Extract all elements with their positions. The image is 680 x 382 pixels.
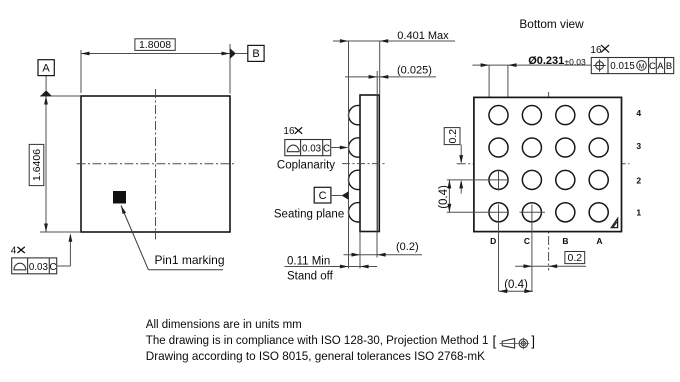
svg-text:C: C bbox=[319, 190, 327, 202]
svg-text:3: 3 bbox=[636, 141, 641, 151]
svg-text:C: C bbox=[649, 61, 656, 72]
svg-text:B: B bbox=[562, 236, 568, 246]
svg-text:B: B bbox=[252, 48, 259, 60]
svg-text:C: C bbox=[49, 262, 56, 273]
svg-text:4: 4 bbox=[636, 108, 641, 118]
svg-text:0.03: 0.03 bbox=[302, 144, 322, 155]
svg-text:1.8008: 1.8008 bbox=[139, 39, 171, 51]
svg-text:]: ] bbox=[531, 333, 535, 348]
svg-text:D: D bbox=[490, 236, 496, 246]
svg-text:16: 16 bbox=[590, 45, 602, 56]
svg-text:Ø0.231: Ø0.231 bbox=[528, 55, 564, 67]
svg-text:A: A bbox=[657, 61, 664, 72]
svg-text:0.401 Max: 0.401 Max bbox=[397, 30, 449, 42]
svg-text:Coplanarity: Coplanarity bbox=[277, 160, 335, 172]
svg-text:B: B bbox=[666, 61, 672, 72]
svg-text:C: C bbox=[524, 236, 530, 246]
svg-text:1: 1 bbox=[636, 208, 641, 218]
svg-text:1.6406: 1.6406 bbox=[31, 149, 43, 181]
svg-text:A: A bbox=[596, 236, 602, 246]
svg-text:4: 4 bbox=[11, 245, 17, 256]
svg-text:Bottom view: Bottom view bbox=[519, 17, 584, 31]
svg-text:0.2: 0.2 bbox=[447, 129, 459, 144]
svg-text:A: A bbox=[42, 63, 50, 75]
svg-text:(0.2): (0.2) bbox=[396, 241, 419, 253]
svg-text:Seating plane: Seating plane bbox=[274, 209, 344, 221]
svg-text:16: 16 bbox=[283, 126, 295, 137]
svg-text:(0.4): (0.4) bbox=[438, 185, 450, 209]
svg-text:Stand off: Stand off bbox=[287, 270, 334, 282]
svg-text:Drawing according to ISO 8015,: Drawing according to ISO 8015, general t… bbox=[146, 350, 485, 363]
svg-text:All dimensions are in units mm: All dimensions are in units mm bbox=[146, 319, 302, 331]
svg-text:0.03: 0.03 bbox=[29, 262, 49, 273]
svg-text:0.11 Min: 0.11 Min bbox=[287, 255, 330, 267]
svg-text:(0.4): (0.4) bbox=[504, 279, 528, 291]
svg-text:The drawing is in compliance w: The drawing is in compliance with ISO 12… bbox=[146, 335, 489, 347]
svg-text:M: M bbox=[639, 63, 645, 70]
svg-text:C: C bbox=[323, 144, 330, 155]
svg-text:0.2: 0.2 bbox=[567, 252, 582, 264]
svg-text:(0.025): (0.025) bbox=[397, 65, 432, 77]
svg-text:±0.03: ±0.03 bbox=[565, 57, 586, 67]
svg-text:Pin1 marking: Pin1 marking bbox=[155, 253, 225, 267]
svg-text:[: [ bbox=[493, 333, 497, 348]
svg-text:0.015: 0.015 bbox=[610, 61, 635, 72]
svg-text:2: 2 bbox=[636, 176, 641, 186]
